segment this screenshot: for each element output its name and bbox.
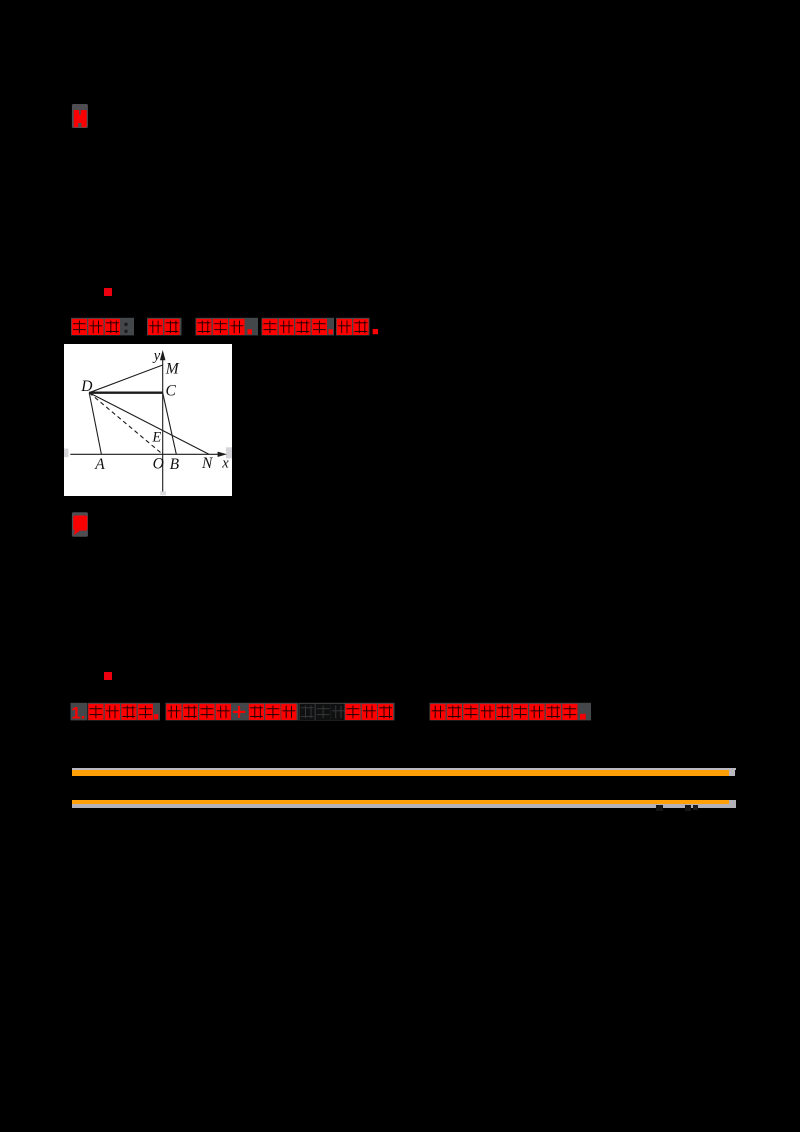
red full stop xyxy=(373,329,378,334)
red keyword group A with comma xyxy=(88,703,161,721)
line D-A xyxy=(89,393,101,455)
red keyword group C xyxy=(345,703,395,721)
svg-text:1.: 1. xyxy=(71,703,85,722)
x-axis arrowhead xyxy=(218,452,227,457)
orange rule 1 (gray strip above) xyxy=(72,768,736,770)
red keyword group 5 xyxy=(336,318,370,336)
red keyword group 2 xyxy=(147,318,182,336)
line D-M xyxy=(89,365,163,393)
red bullet square 2 xyxy=(104,672,111,680)
line D-N xyxy=(89,393,209,455)
red keyword group 3 with comma xyxy=(196,318,259,336)
dark glyph descenders on rule 2 xyxy=(656,805,663,811)
x-axis xyxy=(70,453,221,455)
badge icon 2 (section header) xyxy=(71,511,89,538)
y-axis xyxy=(162,357,164,492)
dashed line D-O xyxy=(89,393,163,455)
line C-B xyxy=(163,393,177,455)
diagram figure xyxy=(64,344,232,496)
red keyword group 1 with colon xyxy=(71,318,134,336)
red keyword group D with full stop xyxy=(430,703,592,721)
red bullet square 1 xyxy=(104,288,112,296)
red item number 1. xyxy=(71,703,88,721)
orange rule 2 (gray strip below) xyxy=(72,800,730,805)
y-axis arrowhead xyxy=(160,350,166,360)
right selection handle xyxy=(226,447,232,458)
red keyword group 4 with comma xyxy=(262,318,335,336)
red keyword group B with plus sign xyxy=(166,703,299,721)
bottom selection handle xyxy=(160,491,166,495)
dark highlighted characters xyxy=(299,703,346,721)
left selection handle xyxy=(64,449,68,458)
line D-C (thick) xyxy=(89,392,163,394)
badge icon 1 (section header) xyxy=(71,103,89,129)
